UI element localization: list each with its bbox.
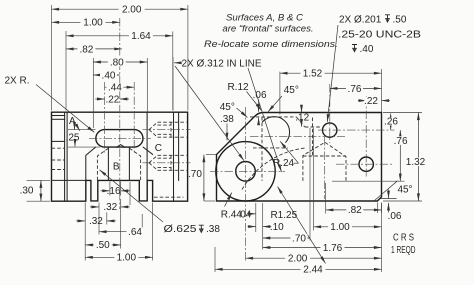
tapped hole C1 hidden outline — [158, 121, 187, 123]
dim .06 bottom right chamfer — [376, 203, 378, 214]
hidden hole walls under B (0.625 drill) — [97, 148, 108, 180]
dim 1.00 right view — [314, 226, 382, 228]
obround left arc centerline — [104, 82, 106, 154]
svg-text:R.24: R.24 — [273, 158, 295, 169]
dim 2.00 right view — [246, 257, 382, 259]
dim .32 first row (outside arrows) — [90, 206, 99, 208]
extension lines bottom — [98, 203, 100, 235]
leader 2X .312 IN LINE note — [172, 57, 174, 111]
dim .16 (outside arrows) — [109, 182, 111, 196]
dim .82 — [326, 209, 382, 211]
svg-text:.38: .38 — [220, 114, 234, 125]
dim .12 — [301, 106, 303, 112]
hole1 centerline vertical — [329, 84, 331, 143]
svg-text:.26: .26 — [384, 117, 398, 128]
svg-text:45°: 45° — [220, 102, 235, 113]
dim .25 (outside arrows) — [68, 129, 96, 131]
front view outline — [52, 112, 188, 201]
front view floor edge across left block — [52, 179, 86, 181]
dim .22 right view (outside arrows) — [358, 100, 366, 102]
svg-text:Re-locate some dimensions.: Re-locate some dimensions. — [204, 39, 338, 50]
ext lines top right view — [279, 72, 281, 115]
svg-text:.25: .25 — [66, 132, 80, 143]
svg-text:.44: .44 — [108, 83, 122, 94]
dim 2.00 top — [52, 8, 188, 10]
house vertical centerline — [324, 137, 326, 199]
hole 0.201 top — [323, 123, 337, 137]
dim 1.00 top — [52, 21, 120, 23]
svg-text:.64: .64 — [128, 227, 142, 238]
post B right edge — [128, 147, 130, 180]
svg-text:C: C — [155, 143, 162, 154]
svg-text:R1.25: R1.25 — [270, 210, 297, 221]
right shoulder chamfer — [143, 147, 152, 154]
svg-text:1.00: 1.00 — [330, 222, 350, 233]
big boss circle R.44 — [216, 142, 275, 201]
right view outline with chamfers — [217, 113, 382, 202]
post B left edge — [107, 147, 109, 180]
ext lines right side — [383, 112, 422, 114]
hidden pocket left wall — [261, 117, 263, 181]
hole2 centerline vertical — [365, 96, 367, 177]
hidden line bottom right block — [154, 196, 184, 198]
tapped hole C2 hidden outline — [158, 154, 187, 156]
svg-text:.06: .06 — [253, 90, 267, 101]
dim 2.44 — [215, 268, 382, 270]
dim .64 — [99, 231, 142, 233]
hole1 centerline horizontal — [318, 129, 395, 131]
hidden pocket top edge — [250, 116, 296, 118]
svg-text:.76: .76 — [394, 136, 408, 147]
svg-text:.22: .22 — [364, 96, 378, 107]
svg-text:1 REQD: 1 REQD — [391, 245, 416, 256]
dim 1.32 — [417, 113, 419, 202]
front view strip top step lines — [52, 115, 65, 117]
hidden post profile (house) — [303, 142, 346, 181]
dim .76 right side — [332, 180, 405, 182]
dim 1.00 bottom — [85, 256, 152, 258]
dim .76 top — [330, 87, 382, 89]
svg-text:1.64: 1.64 — [131, 31, 151, 42]
svg-text:.06: .06 — [388, 211, 402, 222]
dim .50 — [85, 244, 121, 246]
svg-text:.50: .50 — [393, 14, 407, 25]
left shoulder chamfer — [86, 147, 96, 180]
dim .44 — [105, 86, 135, 88]
dim .26 — [390, 114, 392, 131]
dim 1.64 — [66, 35, 173, 37]
svg-text:2X Ø.312 IN LINE: 2X Ø.312 IN LINE — [182, 58, 262, 69]
dim .82 — [66, 48, 122, 50]
boss vertical centerline — [245, 107, 247, 262]
svg-text:R.12: R.12 — [227, 82, 249, 93]
hole 0.201 lower — [359, 157, 373, 171]
svg-text:.82: .82 — [348, 205, 362, 216]
dim .70 left of right view — [206, 154, 216, 156]
ext lines bottom right view — [262, 203, 264, 250]
obround right arc centerline — [133, 82, 135, 154]
dim 1.52 — [280, 72, 382, 74]
svg-text:.70: .70 — [188, 169, 202, 180]
front view vertical centerline — [119, 18, 121, 209]
svg-text:.10: .10 — [270, 222, 284, 233]
svg-text:.70: .70 — [292, 233, 306, 244]
svg-text:2X R.: 2X R. — [5, 76, 30, 87]
svg-text:2.44: 2.44 — [303, 265, 323, 276]
leader 2X .201 holes — [327, 25, 338, 122]
svg-text:.40: .40 — [102, 70, 116, 81]
front view C column edge line — [146, 112, 148, 180]
svg-text:1.00: 1.00 — [117, 253, 137, 264]
svg-text:.80: .80 — [110, 57, 124, 68]
svg-text:2.00: 2.00 — [122, 5, 142, 16]
svg-text:Ø.625: Ø.625 — [164, 224, 198, 235]
svg-text:B: B — [113, 161, 120, 172]
hidden lines: strip slot edges — [52, 147, 65, 149]
svg-text:.16: .16 — [107, 186, 121, 197]
svg-text:.40: .40 — [360, 44, 374, 55]
obround horizontal centerline — [89, 137, 151, 139]
svg-text:are “frontal” surfaces.: are “frontal” surfaces. — [222, 24, 313, 35]
svg-text:.30: .30 — [20, 186, 34, 197]
svg-text:1.52: 1.52 — [303, 69, 323, 80]
svg-text:1.76: 1.76 — [323, 243, 343, 254]
svg-text:45°: 45° — [284, 85, 299, 96]
svg-text:04: 04 — [240, 209, 252, 220]
svg-text:45°: 45° — [397, 185, 412, 196]
svg-text:2.00: 2.00 — [288, 254, 308, 265]
dim .30 left — [27, 179, 51, 181]
drill point peak under slot — [117, 145, 125, 148]
front view strip edge line — [64, 112, 66, 201]
svg-text:.32: .32 — [103, 202, 117, 213]
svg-text:.12: .12 — [295, 113, 309, 124]
dim 1.76 — [263, 247, 382, 249]
dim .80 — [93, 61, 147, 63]
hidden shoulder line — [303, 155, 346, 157]
svg-text:C R S: C R S — [393, 232, 414, 243]
dim .70 right view — [263, 237, 310, 239]
tapped hole C2 centerline — [143, 162, 191, 164]
hole 0.312 — [236, 162, 256, 182]
svg-text:.22: .22 — [105, 94, 119, 105]
svg-text:.82: .82 — [79, 44, 93, 55]
hidden pocket inner wall — [312, 118, 314, 157]
svg-text:.38: .38 — [206, 224, 220, 235]
hidden slot bottom projection — [253, 147, 288, 149]
label R1.25 with center leader — [278, 187, 326, 264]
extension lines top — [51, 5, 53, 111]
R.24 arc — [263, 117, 290, 143]
svg-text:A: A — [69, 116, 76, 127]
dim .22 (outside arrows) — [95, 98, 104, 100]
svg-text:.50: .50 — [96, 240, 110, 251]
dim .40 — [93, 74, 120, 76]
dim .32 second row (outside arrows) — [76, 220, 85, 222]
tapped hole C1 centerline — [143, 129, 191, 131]
hidden pocket second level — [305, 126, 321, 128]
hidden pocket 45 step — [296, 117, 304, 127]
hole2 centerline horizontal — [336, 163, 392, 165]
svg-text:R.44: R.44 — [221, 209, 243, 220]
front view right column lines — [173, 112, 175, 201]
svg-text:.32: .32 — [89, 216, 103, 227]
svg-text:2X Ø.201: 2X Ø.201 — [339, 14, 382, 25]
boss horizontal centerline — [210, 170, 285, 172]
hidden R1.25 arc — [242, 148, 305, 190]
obround slot — [96, 130, 143, 148]
leader and note 0.625 drill depth .38 — [100, 170, 164, 222]
dim .10 (outside arrows) — [248, 226, 256, 228]
svg-text:.76: .76 — [348, 84, 362, 95]
svg-text:Surfaces A, B & C: Surfaces A, B & C — [226, 13, 303, 24]
svg-text:1.00: 1.00 — [83, 18, 103, 29]
slot horizontal centerline right view — [250, 136, 345, 138]
svg-text:1.32: 1.32 — [406, 157, 426, 168]
svg-text:.25-20 UNC-2B: .25-20 UNC-2B — [338, 30, 421, 41]
